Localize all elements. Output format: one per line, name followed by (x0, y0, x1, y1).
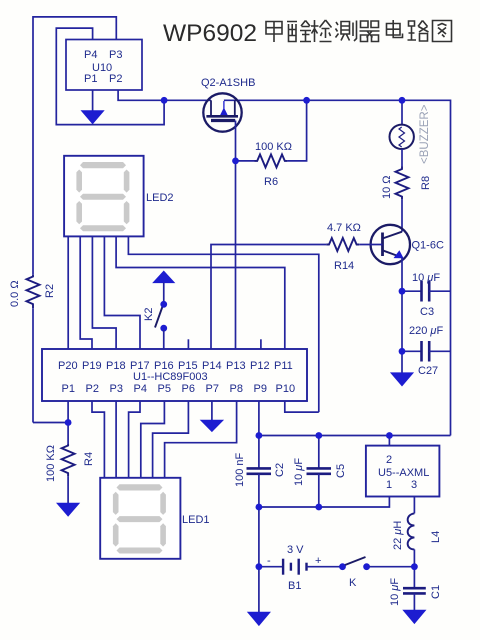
svg-text:WP6902: WP6902 (163, 20, 257, 47)
svg-text:U5--AXML: U5--AXML (378, 467, 429, 479)
svg-text:P5: P5 (158, 383, 171, 395)
ground bottom center (248, 612, 270, 625)
svg-text:C3: C3 (420, 306, 434, 318)
svg-text:P1: P1 (62, 383, 75, 395)
svg-text:K2: K2 (143, 308, 155, 321)
wire MCU P9 to C2 (258, 401, 260, 468)
wire top rail right of Q2 (224, 100, 451, 435)
svg-text:LED1: LED1 (182, 514, 210, 526)
wire LED2 pin2 to MCU P19 (80, 236, 92, 349)
svg-text:220 μF: 220 μF (409, 325, 443, 337)
pin stub P15 (187, 339, 189, 349)
svg-text:C2: C2 (274, 463, 286, 477)
svg-text:R8: R8 (420, 176, 432, 190)
resistor R2 (9, 275, 56, 423)
svg-text:K: K (349, 577, 357, 589)
svg-text:P3: P3 (110, 383, 123, 395)
svg-text:10 μF: 10 μF (293, 458, 305, 486)
buzzer (390, 100, 432, 164)
wire U10 P3 to left rail (33, 17, 116, 275)
transistor Q1-6C (NPN) (371, 225, 444, 264)
svg-text:P9: P9 (254, 383, 267, 395)
svg-text:P4: P4 (84, 49, 97, 61)
ground below C1 (403, 610, 425, 623)
wire battery node down (258, 567, 260, 613)
svg-text:R14: R14 (334, 260, 354, 272)
svg-text:P18: P18 (106, 360, 126, 372)
wire MCU P4 to LED1 pin3 (129, 401, 140, 478)
ground below R4 (57, 503, 79, 516)
wire MCU P1 to node (67, 401, 69, 423)
capacitor C27 (402, 325, 451, 377)
battery B1 (259, 544, 340, 592)
wire LED2 pin1 to MCU P20 (67, 236, 69, 349)
wire U10 P2 to top rail (118, 90, 211, 100)
wire LED2 pin3 to MCU P18 (92, 236, 116, 349)
svg-text:P1: P1 (84, 73, 97, 85)
svg-text:10 Ω: 10 Ω (381, 175, 393, 199)
svg-text:P8: P8 (230, 383, 243, 395)
wire MCU P6 to LED1 pin5 (153, 401, 189, 478)
svg-text:100 KΩ: 100 KΩ (255, 141, 292, 153)
svg-text:U1--HC89F003: U1--HC89F003 (133, 371, 208, 383)
char 醛 (287, 21, 311, 42)
char 路 (408, 21, 429, 42)
char 图 (433, 21, 452, 42)
wire Q1 emitter rail down (401, 258, 403, 374)
pin stub P12 (260, 339, 262, 349)
wire MCU P2 to LED1 pin1 (92, 401, 104, 478)
title chinese 甲醛检测器电路图 (266, 20, 452, 42)
char 甲 (266, 22, 282, 43)
IC U1 HC89F003 (42, 349, 307, 401)
display LED2 (64, 156, 173, 237)
svg-text:P20: P20 (58, 360, 78, 372)
svg-text:<BUZZER>: <BUZZER> (419, 104, 431, 164)
svg-text:2: 2 (386, 454, 392, 466)
title WP6902 (163, 20, 257, 47)
svg-text:P13: P13 (226, 360, 246, 372)
svg-text:100 KΩ: 100 KΩ (45, 445, 57, 482)
svg-text:-: - (267, 555, 271, 567)
ground below C27 (391, 373, 413, 386)
svg-text:1: 1 (386, 479, 392, 491)
wire Q2 drain down to node (235, 121, 237, 161)
wire cap top rail y435 (259, 435, 451, 437)
wire MCU P8 to LED1 pin6 (165, 401, 237, 478)
svg-text:10 μF: 10 μF (389, 578, 401, 606)
U10 labels (84, 49, 122, 85)
svg-text:4.7 KΩ: 4.7 KΩ (327, 222, 361, 234)
wire C2 down to battery node (258, 507, 260, 567)
svg-text:Q1-6C: Q1-6C (412, 240, 444, 252)
svg-text:P2: P2 (109, 73, 122, 85)
svg-text:P4: P4 (134, 383, 147, 395)
wire LED2 pin4 to MCU P17 (104, 236, 140, 349)
resistor R14 (211, 222, 383, 349)
wire LED2 pin6 to C2 net (128, 236, 318, 412)
svg-text:C5: C5 (335, 464, 347, 478)
char 测 (336, 21, 357, 42)
svg-text:P3: P3 (109, 49, 122, 61)
svg-text:0.0 Ω: 0.0 Ω (9, 280, 21, 307)
ground below U10 P1 (82, 90, 104, 124)
svg-text:R4: R4 (83, 452, 95, 466)
transistor Q2-A1SHB (PMOS) (201, 77, 255, 132)
capacitor C3 (402, 272, 451, 318)
IC U5 AXML (366, 436, 440, 497)
wire MCU P3 to LED1 pin2 (115, 401, 117, 478)
svg-text:C27: C27 (418, 365, 438, 377)
svg-text:L4: L4 (430, 531, 442, 543)
inductor L4 (392, 497, 442, 567)
svg-text:3 V: 3 V (287, 544, 304, 556)
char 器 (360, 21, 380, 42)
svg-text:3: 3 (411, 479, 417, 491)
wire MCU P10 to C2 net (285, 401, 319, 412)
svg-text:P7: P7 (206, 383, 219, 395)
svg-text:R2: R2 (44, 284, 56, 298)
wire node to MCU P13 (235, 161, 237, 349)
svg-text:P11: P11 (274, 360, 293, 372)
svg-text:B1: B1 (288, 580, 301, 592)
svg-text:10 μF: 10 μF (412, 272, 440, 284)
svg-text:R6: R6 (264, 176, 278, 188)
switch K (340, 557, 415, 589)
ground below MCU P7 (201, 401, 223, 431)
svg-text:P19: P19 (82, 360, 102, 372)
svg-text:C1: C1 (430, 585, 442, 599)
resistor R6 (236, 100, 307, 188)
svg-text:100 nF: 100 nF (234, 452, 246, 487)
char 电 (387, 20, 403, 38)
capacitor C1 (389, 567, 442, 611)
capacitor C2 (234, 452, 286, 507)
svg-text:Q2-A1SHB: Q2-A1SHB (201, 77, 255, 89)
svg-text:P2: P2 (86, 383, 99, 395)
svg-text:22 μH: 22 μH (392, 521, 404, 550)
wire cap bottom rail y507 (259, 497, 390, 508)
IC U10 (66, 40, 142, 91)
switch K2 (143, 271, 174, 349)
svg-text:P10: P10 (276, 383, 296, 395)
wire U10 P4 net (56, 28, 164, 125)
resistor R8 (381, 149, 432, 232)
svg-text:LED2: LED2 (146, 192, 174, 204)
svg-text:+: + (315, 555, 321, 567)
resistor R4 (45, 423, 95, 504)
display LED1 (100, 478, 209, 559)
wire MCU P5 to LED1 pin4 (141, 401, 165, 478)
wire left rail to node (33, 422, 68, 424)
wire LED2 pin5 to MCU P11 (116, 236, 285, 349)
capacitor C5 (293, 436, 347, 508)
svg-text:P12: P12 (250, 360, 270, 372)
char 检 (311, 20, 332, 42)
svg-text:P6: P6 (182, 383, 195, 395)
